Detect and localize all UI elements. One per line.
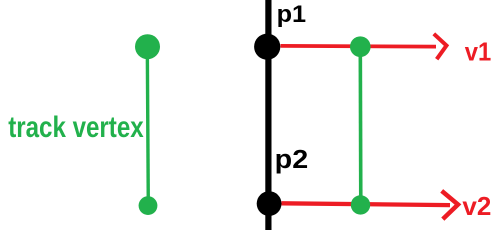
svg-text:p1: p1 [277,1,307,28]
svg-text:p2: p2 [275,146,309,174]
svg-text:v1: v1 [465,36,492,66]
svg-text:v2: v2 [462,191,491,221]
svg-text:track vertex: track vertex [8,111,144,144]
